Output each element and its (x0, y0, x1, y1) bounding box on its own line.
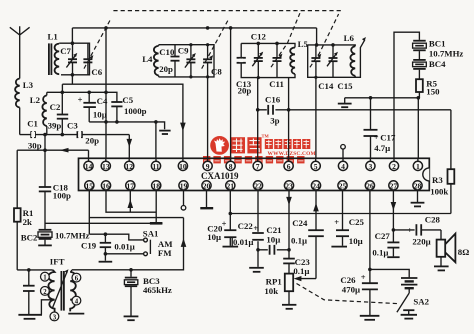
pin 11 (151, 158, 160, 171)
ground RP1 (282, 305, 296, 309)
wire pin6 column (288, 78, 290, 159)
pin 9 (203, 158, 212, 171)
node R5 bottom (417, 96, 421, 100)
wire box1 top to rail (71, 28, 73, 43)
node C19 top (104, 232, 108, 236)
potentiometer RP1 (264, 274, 316, 304)
svg-text:IFT: IFT (50, 257, 65, 267)
FM RF tank box C13 C12 C11 L5 (241, 43, 295, 77)
svg-text:+: + (78, 94, 83, 104)
ground mid-right (338, 98, 352, 107)
node C17 top (369, 96, 373, 100)
op-amp U1 CXA1019 IC body (79, 158, 430, 190)
wire pin12 drop with arrow (127, 135, 133, 159)
wire pin27 drop with arrow (391, 191, 397, 243)
svg-text:3: 3 (53, 314, 57, 321)
wire column x45 to C18 (44, 135, 46, 151)
node 30p junction (43, 148, 47, 152)
node rail corner C14 (315, 43, 319, 47)
svg-text:C14: C14 (318, 81, 334, 91)
capacitor C3 (67, 120, 99, 145)
pin 12 (125, 158, 134, 171)
inductor L6 (344, 33, 356, 76)
wire pin15 line y217.6 (89, 191, 183, 235)
svg-text:1: 1 (43, 275, 47, 282)
pin 20 (202, 181, 211, 191)
svg-text:20p: 20p (238, 86, 252, 96)
node C12 bottom (257, 76, 260, 79)
svg-text:BC2: BC2 (21, 232, 38, 242)
svg-text:24: 24 (312, 181, 320, 190)
svg-text:10µ: 10µ (93, 110, 107, 120)
node C19 bottom (104, 252, 108, 256)
terminal 4 (72, 296, 81, 305)
svg-text:0.1µ: 0.1µ (372, 248, 388, 258)
ground C20 (223, 246, 239, 248)
svg-text:L6: L6 (344, 33, 355, 43)
svg-text:C24: C24 (292, 218, 308, 228)
capacitor C28 polarized (393, 214, 441, 246)
switch SA1 (143, 228, 173, 258)
svg-text:6: 6 (75, 276, 79, 283)
wire box1 bottom stub (71, 75, 73, 84)
svg-text:27: 27 (390, 181, 398, 190)
pin 24 (311, 181, 320, 191)
svg-text:+: + (407, 225, 412, 235)
ground IFT right (68, 313, 84, 315)
node y92.3 pin13 (104, 91, 108, 95)
capacitor IFT tank (23, 270, 35, 314)
pin 2 (389, 158, 398, 171)
crystal filter BC2 (21, 230, 90, 246)
wire ground line y97.8 (345, 97, 419, 99)
node BC3 top (129, 268, 133, 272)
node y92.3 x62.3 (61, 91, 65, 95)
wire IFT secondary line (72, 269, 131, 271)
svg-text:C8: C8 (211, 67, 222, 77)
node C21 right (287, 248, 291, 252)
pin 17 (126, 181, 135, 191)
svg-text:12: 12 (125, 162, 133, 171)
wire C19 top feed (89, 234, 143, 240)
svg-text:100k: 100k (430, 186, 448, 196)
svg-text:21: 21 (227, 181, 235, 190)
node C14 bottom (314, 76, 317, 79)
svg-text:9: 9 (206, 162, 210, 171)
node rail pin13 (104, 26, 108, 30)
svg-text:C19: C19 (81, 240, 97, 250)
capacitor C18 (39, 150, 71, 230)
pin 22 (253, 181, 262, 191)
node C21 left (256, 248, 260, 252)
capacitor C17 polarized (364, 98, 396, 159)
terminal 2 (41, 287, 50, 296)
pin 16 (101, 181, 110, 191)
node C15 top (331, 43, 335, 47)
variable capacitor C11 ganged (269, 13, 300, 89)
FM tuner box C14 C15 L6 (308, 45, 356, 77)
svg-text:3p: 3p (270, 116, 279, 126)
svg-text:3: 3 (369, 162, 373, 171)
wire line y223.3 BC2 to pin18 (45, 222, 162, 224)
svg-text:470µ: 470µ (342, 284, 360, 294)
node C8 bottom (206, 75, 209, 78)
wire AM line y134.6 (20, 134, 130, 136)
FM osc coil L4 (142, 46, 158, 76)
pin 7 (253, 158, 262, 171)
crystal filter BC1 (413, 39, 464, 59)
wire pin23 drop with arrow (286, 191, 292, 259)
wire BC3 loop riser with arrow (131, 218, 186, 270)
variable capacitor C8 ganged (202, 18, 229, 77)
crystal filter BC3 (124, 270, 172, 316)
node C26 top (368, 268, 372, 272)
svg-text:C16: C16 (265, 95, 281, 105)
svg-text:13: 13 (102, 162, 110, 171)
inductor L5 (290, 39, 308, 74)
capacitor C5 (111, 95, 146, 122)
svg-text:FM: FM (158, 248, 172, 258)
trimmer capacitor C15 (327, 45, 353, 91)
pin 6 (284, 158, 293, 171)
svg-text:RP1: RP1 (266, 276, 282, 286)
capacitor C21 (258, 225, 289, 255)
arrow into pin10 (180, 123, 186, 132)
svg-text:1: 1 (416, 162, 420, 171)
pin 4 (338, 158, 347, 171)
trimmer capacitor C12 (251, 31, 267, 77)
svg-text:465kHz: 465kHz (143, 285, 172, 295)
svg-text:TM: TM (262, 134, 270, 139)
capacitor C23 (283, 257, 310, 276)
pin 13 (101, 158, 110, 171)
wire pin2 hook to BC1 (394, 32, 419, 158)
pin 19 (179, 181, 188, 191)
pin 26 (365, 181, 374, 191)
wire R3 top drop (450, 110, 452, 169)
node pin6 C16 (287, 108, 291, 112)
wire pin9 column (207, 77, 209, 158)
battery GB (401, 278, 417, 293)
wire pin26 drop (369, 191, 371, 284)
resistor R3 (430, 169, 454, 213)
ground C19 (99, 261, 113, 263)
transformer IFT (41, 257, 75, 315)
svg-text:C10: C10 (159, 47, 175, 57)
crystal filter BC4 (413, 59, 447, 79)
svg-text:39p: 39p (48, 120, 62, 130)
pin 18 (152, 181, 161, 191)
ground C26 (360, 316, 380, 320)
wire pin19 open terminal (181, 191, 186, 211)
ground pin20 (200, 191, 213, 209)
wire AGC bus y213.5 (230, 213, 451, 215)
svg-text:5: 5 (314, 162, 318, 171)
pin 8 (226, 158, 235, 171)
wire pin5 column (315, 77, 317, 158)
ground BC3 (124, 316, 139, 320)
capacitor C10 (159, 45, 179, 77)
wire rail corner down (316, 28, 318, 45)
wire battery feed (370, 269, 409, 277)
ground C27 (387, 256, 399, 258)
node C8 top (206, 43, 209, 46)
svg-text:C27: C27 (375, 231, 391, 241)
pin 14 (84, 158, 93, 171)
svg-text:BC1: BC1 (429, 39, 446, 49)
FM whip antenna (355, 37, 366, 77)
capacitor C2 (50, 92, 69, 134)
node IFT cap (27, 268, 31, 272)
svg-text:C6: C6 (91, 67, 102, 77)
svg-text:L2: L2 (30, 95, 41, 105)
terminal 1 (41, 272, 50, 281)
svg-text:C22: C22 (238, 221, 254, 231)
ground mid-left (159, 131, 170, 134)
variable capacitor C14 ganged (310, 14, 339, 91)
svg-text:2: 2 (43, 289, 47, 296)
wire C2 column upper (61, 84, 63, 92)
svg-text:+: + (334, 217, 339, 227)
capacitor C24 (291, 218, 324, 279)
capacitor C4 polarized (78, 92, 108, 122)
wire osc line y150.2 with left arrow (17, 141, 88, 153)
svg-text:10.7MHz: 10.7MHz (55, 231, 90, 241)
ground C22 (249, 268, 264, 272)
svg-text:6: 6 (287, 162, 291, 171)
node C9 bottom (189, 75, 192, 78)
capacitor C26 polarized (340, 272, 378, 315)
svg-text:4: 4 (75, 299, 79, 306)
svg-text:30p: 30p (28, 141, 42, 151)
capacitor C13 (236, 58, 252, 96)
wire IFT primary feed (17, 269, 53, 271)
trimmer capacitor C9 (178, 45, 196, 77)
antenna (10, 26, 30, 78)
terminal 3 (50, 312, 59, 321)
wire C16 line to R3 (258, 109, 451, 111)
svg-text:15: 15 (86, 181, 94, 190)
wire row y84.2 to pin10 (62, 84, 182, 158)
svg-text:11: 11 (152, 162, 159, 171)
pin 15 (85, 181, 94, 191)
svg-text:0.01µ: 0.01µ (114, 242, 134, 252)
wire FM contact line (105, 253, 143, 255)
resistor R5 (416, 79, 440, 98)
ground C25 (331, 246, 347, 248)
pin 25 (338, 181, 347, 191)
svg-text:C3: C3 (67, 120, 78, 130)
ground pin28 (411, 191, 425, 207)
svg-text:20p: 20p (159, 64, 173, 74)
terminal pin4 (341, 145, 346, 159)
svg-text:20p: 20p (85, 136, 99, 146)
svg-text:10.7MHz: 10.7MHz (429, 49, 464, 59)
wire pin7 column (257, 78, 259, 159)
wire pin24 drop with arrow (313, 191, 319, 231)
svg-text:16: 16 (102, 181, 110, 190)
svg-text:C9: C9 (178, 46, 189, 56)
capacitor C16 (265, 95, 281, 126)
svg-text:C2: C2 (50, 102, 61, 112)
variable capacitor C6 ganged (83, 19, 110, 77)
svg-text:L4: L4 (142, 54, 153, 64)
terminal 6 (72, 273, 81, 282)
pin 5 (311, 158, 320, 171)
svg-text:L5: L5 (298, 39, 309, 49)
svg-text:19: 19 (180, 181, 188, 190)
wire pin22 drop (257, 191, 259, 267)
node pin7 C16 (256, 108, 260, 112)
svg-text:10µ: 10µ (349, 236, 363, 246)
svg-text:+: + (253, 223, 258, 233)
svg-text:1000p: 1000p (124, 106, 147, 116)
pin 10 (178, 158, 187, 171)
node L2 bottom (43, 133, 47, 137)
svg-text:8: 8 (229, 162, 233, 171)
pin 3 (366, 158, 375, 171)
node y92.3 C4 (87, 91, 91, 95)
node y121.9 C5 (115, 120, 119, 124)
svg-text:+: + (361, 272, 366, 282)
svg-text:10µ: 10µ (207, 232, 221, 242)
ground speaker (434, 266, 449, 270)
svg-text:C28: C28 (425, 214, 441, 224)
wire pin1 column (417, 98, 419, 159)
svg-text:C15: C15 (337, 81, 353, 91)
svg-text:8Ω: 8Ω (458, 247, 469, 257)
dashed gang link RP1 SA2 (297, 284, 398, 304)
node box1 bottom (71, 73, 75, 77)
resistor R1 (14, 150, 33, 270)
capacitor C1 (27, 119, 61, 139)
pin 28 (413, 181, 422, 191)
wire row y92.3 C4 C5 top (47, 92, 117, 102)
svg-text:C4: C4 (97, 96, 108, 106)
svg-text:4.7µ: 4.7µ (374, 143, 390, 153)
svg-text:2: 2 (392, 162, 396, 171)
watermark logo circle (210, 136, 229, 155)
svg-text:C7: C7 (60, 46, 71, 56)
node C28 junction (392, 228, 396, 232)
svg-text:14: 14 (85, 162, 93, 171)
svg-text:23: 23 (285, 181, 293, 190)
node y121.9 pin11 (154, 120, 158, 124)
capacitor C22 polarized (232, 221, 265, 247)
dashed gang rail (113, 10, 341, 12)
svg-text:17: 17 (127, 181, 135, 190)
svg-text:26: 26 (366, 181, 374, 190)
svg-text:22: 22 (254, 181, 262, 190)
node C9 top (189, 43, 192, 46)
svg-text:220µ: 220µ (412, 237, 430, 247)
svg-text:C25: C25 (349, 217, 365, 227)
svg-text:150: 150 (426, 87, 440, 97)
node C2 bottom (61, 133, 65, 137)
svg-text:10µ: 10µ (266, 234, 280, 244)
pin 23 (284, 181, 293, 191)
node C11 top (275, 42, 279, 46)
svg-text:4: 4 (341, 162, 345, 171)
trimmer capacitor C7 (60, 43, 77, 75)
svg-text:C1: C1 (27, 119, 38, 129)
svg-text:CXA1019: CXA1019 (201, 171, 239, 181)
inductor L2 (30, 92, 47, 134)
svg-text:L1: L1 (48, 32, 58, 42)
capacitor C25 polarized (334, 217, 364, 246)
node rail pin8 (229, 26, 233, 30)
inductor L1 with core (48, 32, 60, 75)
wire pin14 drop (88, 150, 90, 158)
L4 tank box (159, 45, 214, 77)
node C12 top (257, 42, 261, 46)
svg-text:C12: C12 (251, 31, 267, 41)
node y121.9 pin13 (104, 120, 108, 124)
svg-text:BC4: BC4 (429, 59, 446, 69)
inductor L3 (15, 79, 34, 108)
pin 1 (413, 158, 422, 171)
ground SA2 (401, 315, 417, 319)
node box1 top (71, 41, 75, 45)
capacitor C19 (81, 234, 135, 261)
svg-text:0.01µ: 0.01µ (233, 237, 253, 247)
svg-text:+: + (374, 132, 379, 142)
AM tank box (59, 43, 89, 75)
svg-text:7: 7 (256, 162, 260, 171)
wire top rail (72, 27, 316, 29)
switch SA2 (397, 293, 430, 314)
svg-text:100p: 100p (53, 191, 71, 201)
node rail pin9 (206, 26, 210, 30)
svg-text:R3: R3 (432, 175, 443, 185)
wire row y121.9 (89, 122, 164, 129)
wire pin16 to pin17 line y212.2 (106, 191, 156, 213)
svg-text:0.1µ: 0.1µ (291, 236, 307, 246)
svg-text:SA1: SA1 (143, 228, 159, 238)
speaker BL (437, 230, 470, 266)
node pin21 bus (229, 212, 233, 216)
ground IFT left (18, 315, 42, 319)
wire pin8 column (230, 28, 232, 158)
pin18 terminator bar (150, 191, 163, 224)
svg-text:0.1µ: 0.1µ (293, 266, 309, 276)
svg-text:18: 18 (152, 181, 160, 190)
pin 27 (389, 181, 398, 191)
svg-text:20: 20 (203, 181, 211, 190)
svg-text:28: 28 (414, 181, 422, 190)
svg-text:10k: 10k (264, 286, 278, 296)
svg-text:SA2: SA2 (413, 296, 429, 306)
svg-text:C11: C11 (269, 79, 284, 89)
svg-text:2k: 2k (23, 217, 32, 227)
wire pin21 drop (229, 191, 231, 231)
wire pin25 drop (342, 191, 344, 231)
capacitor C27 (372, 231, 399, 257)
wire pin13 column (105, 28, 107, 158)
wire antenna lead (19, 108, 21, 135)
svg-text:10: 10 (179, 162, 187, 171)
watermark brand text (203, 134, 316, 164)
svg-text:L3: L3 (23, 80, 34, 90)
pin 21 (226, 181, 235, 191)
wire pin11 drop (155, 122, 157, 158)
capacitor C20 polarized (207, 218, 236, 245)
svg-text:C5: C5 (122, 95, 133, 105)
svg-text:25: 25 (339, 181, 347, 190)
